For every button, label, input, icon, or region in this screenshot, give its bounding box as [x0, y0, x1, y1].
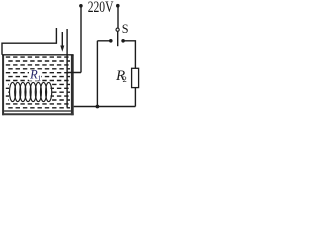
- svg-text:2: 2: [123, 74, 127, 84]
- svg-text:1: 1: [38, 73, 42, 82]
- svg-text:220V: 220V: [88, 0, 114, 16]
- svg-text:S: S: [122, 22, 129, 36]
